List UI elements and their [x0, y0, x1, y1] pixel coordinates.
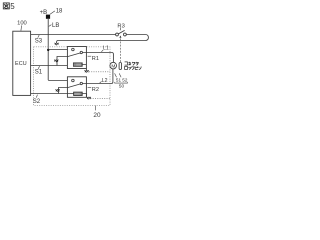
connector M6	[56, 89, 60, 92]
wire S2 from ECU to R2 coil	[31, 93, 74, 95]
switch R3	[116, 30, 127, 35]
svg-text:L2: L2	[102, 78, 108, 84]
dashed connector line right of M3	[89, 71, 110, 73]
label L1 leader	[101, 50, 103, 52]
wire LB branch to R1 contact	[48, 49, 71, 51]
wire branch to R1 lever	[57, 57, 67, 66]
label S3 leader	[38, 35, 39, 38]
wire S3 from ECU to R3 switch	[31, 34, 116, 36]
wire S1 from ECU to R1 coil	[31, 65, 74, 67]
dashed connector line right of M4	[90, 98, 110, 100]
connector M3	[85, 70, 89, 73]
svg-text:S3: S3	[35, 38, 43, 44]
svg-text:M: M	[111, 63, 115, 69]
wire LB corner to R2 contact	[48, 80, 71, 82]
R1 switch lever	[68, 53, 81, 57]
label コネクタ ロックピン	[125, 62, 142, 70]
wire LB vertical from +B down to relay feeds	[47, 18, 49, 80]
label S2 leader	[36, 95, 37, 98]
bracket 50	[115, 82, 128, 83]
connector M1	[55, 43, 59, 46]
svg-text:R1: R1	[92, 56, 99, 62]
label 100 leader	[20, 25, 23, 30]
svg-text:ECU: ECU	[15, 61, 27, 67]
svg-text:LB: LB	[52, 23, 59, 29]
svg-text:51 52: 51 52	[116, 78, 128, 83]
wire L2 from R2 to motor	[83, 69, 113, 84]
+B power node	[46, 15, 50, 19]
label L2 leader	[100, 81, 102, 83]
svg-text:100: 100	[17, 21, 27, 27]
svg-text:20: 20	[93, 112, 101, 119]
svg-text:18: 18	[56, 9, 63, 15]
junction node on LB	[47, 49, 49, 51]
svg-text:R2: R2	[92, 87, 99, 93]
label S1 leader	[38, 66, 39, 69]
label R2 leader	[88, 86, 92, 88]
svg-text:+B: +B	[40, 10, 48, 16]
label 52 leader	[119, 73, 121, 77]
R1 coil	[73, 63, 82, 66]
R1 switch contact circles	[72, 48, 83, 53]
R2 switch lever	[68, 84, 81, 88]
svg-text:5: 5	[10, 2, 15, 11]
svg-text:R3: R3	[117, 24, 124, 30]
dashed box 20 (relay unit)	[34, 47, 110, 106]
svg-text:L1: L1	[103, 46, 109, 52]
R1 coil return wire	[82, 65, 86, 71]
connector M2	[54, 60, 58, 63]
figure label 図5	[3, 3, 9, 9]
R2 coil	[74, 92, 83, 95]
label R3 leader	[119, 28, 121, 30]
label 18 leader	[50, 11, 55, 14]
ECU box (100)	[13, 31, 31, 95]
wire L1 from R1 to motor	[83, 53, 114, 63]
svg-text:S1: S1	[35, 69, 43, 75]
connector lock pin (52)	[119, 63, 121, 70]
relay R2 box	[67, 77, 86, 98]
connector M4	[87, 97, 91, 100]
relay R1 box	[67, 47, 86, 69]
wire return loop from R3 to relay contacts	[57, 35, 149, 43]
mechanical link dashed line with arrow	[119, 38, 121, 62]
label R1 leader	[88, 55, 92, 57]
svg-text:50: 50	[119, 83, 125, 88]
label 20 leader	[95, 106, 97, 111]
svg-text:S2: S2	[33, 99, 41, 105]
wire branch to R2 lever	[59, 88, 68, 94]
R2 coil return wire	[82, 94, 86, 97]
label 51 leader	[115, 73, 117, 77]
motor M (51)	[110, 62, 117, 69]
label LB leader	[49, 25, 52, 27]
R2 switch contact circles	[72, 79, 83, 84]
